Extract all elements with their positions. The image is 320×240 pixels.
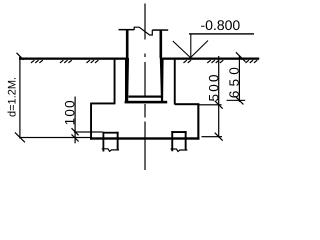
text d=1.2M. xyxy=(8,78,16,117)
text 650 xyxy=(229,68,239,98)
cup wall joint left (blackened) xyxy=(125,58,129,101)
pedestal ledge left xyxy=(91,103,115,105)
100 ext line (pile top level) xyxy=(74,131,103,132)
level mark -0.800 leader V xyxy=(173,34,208,58)
ground hatch group 5 xyxy=(207,60,223,63)
base step edge right xyxy=(197,104,199,140)
ground hatch group 6 xyxy=(246,60,258,63)
pile left top xyxy=(103,132,119,134)
column bottom line xyxy=(129,96,162,98)
column break zigzag xyxy=(134,27,152,35)
ground hatch group 1 xyxy=(31,60,43,63)
column edge left (above ground) xyxy=(126,30,129,58)
text 100 xyxy=(65,101,75,125)
dimension 100 line xyxy=(75,97,76,144)
pile right edges xyxy=(171,131,173,151)
column centerline (dash-dot) xyxy=(144,4,146,171)
650 tick at bottom xyxy=(235,96,243,104)
ground line left xyxy=(19,58,127,60)
d dim tick bottom xyxy=(15,132,25,142)
ledge extension to 500 line xyxy=(199,104,221,105)
pedestal edge right xyxy=(174,60,176,105)
column edge right (above ground) xyxy=(160,30,163,58)
cup floor line xyxy=(125,101,168,104)
ground hatch group 4 xyxy=(184,60,192,63)
pedestal edge left xyxy=(114,60,116,105)
base step edge left xyxy=(90,103,92,140)
pile left edges xyxy=(103,132,105,152)
pile right break xyxy=(171,149,188,152)
500 tick at base bottom xyxy=(215,133,223,141)
text 500 xyxy=(209,75,219,101)
500 tick at ledge xyxy=(215,101,223,109)
dimension line 650 (outer right) xyxy=(239,56,240,102)
100 tick upper xyxy=(72,128,79,135)
100 tick lower xyxy=(72,134,79,141)
column break cap left xyxy=(119,29,135,31)
base bottom line xyxy=(90,137,199,139)
level text -0.800 xyxy=(201,20,240,30)
dimension line 500 (inner right) xyxy=(218,56,219,138)
base bottom extension to 500 line xyxy=(202,136,223,137)
bottom extension line (left long) xyxy=(20,137,90,138)
650 bottom extension line xyxy=(227,100,246,101)
d dim tick top xyxy=(17,53,24,60)
pile left break xyxy=(102,149,119,152)
ground hatch group 2 xyxy=(60,60,72,63)
pile right top xyxy=(171,131,186,133)
ground hatch group 3 xyxy=(87,60,99,63)
pedestal ledge right xyxy=(175,103,199,105)
cup wall joint right (blackened) xyxy=(160,58,164,101)
column break cap right xyxy=(152,29,168,31)
650 tick at ground xyxy=(236,52,246,61)
dimension line d (left, vertical) xyxy=(19,56,20,139)
ground line right xyxy=(162,58,259,60)
level mark underline xyxy=(189,33,254,34)
